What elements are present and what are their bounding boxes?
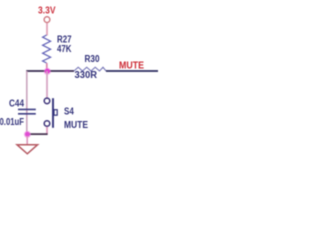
wire R27 to junction <box>46 63 48 71</box>
wire switch pin2 to bottom wire <box>46 127 48 135</box>
svg-text:0.01uF: 0.01uF <box>0 117 24 128</box>
wire power port to R27 <box>46 23 48 36</box>
ground stem <box>26 136 28 144</box>
wire to MUTE net <box>106 70 158 72</box>
junction node bottom <box>24 131 31 138</box>
resistor R27 body <box>43 35 51 63</box>
power port circle 3.3V <box>44 17 50 23</box>
junction node <box>44 68 51 75</box>
svg-text:R30: R30 <box>85 54 100 65</box>
switch S4 handle knob <box>54 110 57 116</box>
svg-text:C44: C44 <box>9 98 24 109</box>
svg-text:MUTE: MUTE <box>64 120 88 131</box>
wire junction to switch S4 <box>46 71 48 98</box>
svg-text:3.3V: 3.3V <box>38 5 56 16</box>
svg-text:330R: 330R <box>75 70 98 81</box>
ground symbol <box>17 145 38 154</box>
wire C44 corner vertical <box>26 71 28 134</box>
switch S4 pin 1 circle <box>44 98 50 104</box>
wire top horizontal <box>26 70 74 72</box>
svg-text:MUTE: MUTE <box>119 59 144 71</box>
capacitor C44 plate top <box>18 108 36 110</box>
switch S4 actuator bar <box>52 98 54 128</box>
capacitor C44 plate bottom <box>18 113 36 115</box>
svg-text:47K: 47K <box>57 44 72 55</box>
bottom wire C44 to S4 <box>27 133 48 135</box>
resistor R30 body <box>74 67 106 71</box>
svg-text:S4: S4 <box>64 107 74 118</box>
switch S4 pin 2 circle <box>44 121 50 127</box>
